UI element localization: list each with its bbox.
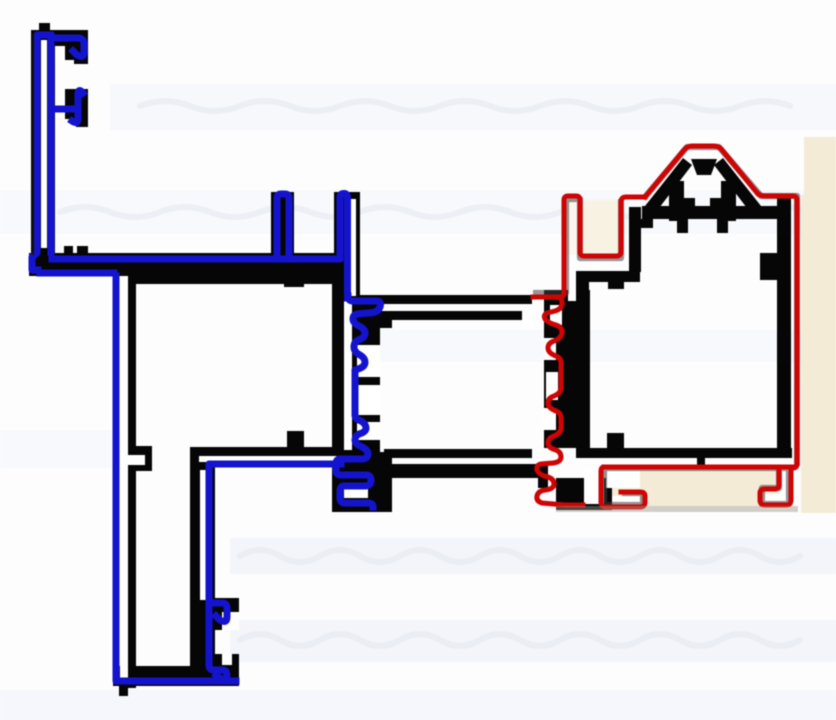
hat ornament left	[669, 181, 684, 221]
left bead bottom notches	[344, 484, 368, 498]
left gasket black tail	[380, 316, 392, 328]
faint texture band 6	[0, 690, 836, 720]
top band lower edge right part	[128, 276, 346, 284]
white slot right stub area	[568, 263, 576, 301]
vertical1 blue	[116, 276, 236, 681]
bottom rail red	[601, 467, 794, 507]
left gasket white stripe	[344, 300, 352, 450]
faint streak texture in bands	[60, 101, 810, 646]
vertical2 blue + shelf	[209, 464, 341, 600]
white cores / notches	[41, 40, 786, 684]
vertical 1 black	[128, 276, 136, 688]
glass bottom line	[384, 449, 532, 458]
faint texture band 4	[230, 538, 836, 574]
shelf white stripe	[199, 456, 339, 462]
hook1 blue	[51, 38, 84, 56]
right band	[576, 271, 640, 282]
right chamber bottom wall	[576, 448, 792, 458]
left gasket bed black	[342, 296, 380, 452]
left bead bottom block	[332, 452, 392, 512]
right chamber left wall upper	[629, 207, 641, 272]
bead E-feet blue	[209, 598, 227, 679]
right gasket bottom foot	[556, 478, 612, 510]
rail foot1 interior	[606, 471, 640, 488]
screw ticks on band	[64, 246, 73, 254]
hook 2 black	[55, 89, 88, 127]
faint texture band 2	[0, 190, 836, 234]
blue shadow edges (dark edging near blue lines)	[32, 34, 35, 255]
faint texture band 1	[110, 84, 836, 130]
stub B / bead upright black	[334, 192, 360, 302]
v1 tab notch	[127, 455, 145, 465]
right gasket wiggle	[533, 297, 583, 505]
glass bottom band right tail	[538, 464, 548, 488]
top band black	[37, 253, 346, 276]
right gasket pockets	[550, 305, 562, 325]
left frame bar black body	[31, 30, 55, 262]
bar inner blue + hooks	[48, 36, 55, 252]
band top blue	[52, 256, 338, 263]
hook 1 black	[55, 30, 88, 64]
vertical 2 black	[190, 447, 215, 672]
bar outer blue	[32, 35, 50, 270]
shadow under right profile feet	[556, 506, 798, 512]
hook2 notch	[55, 96, 65, 118]
hat apex shadow	[691, 159, 717, 175]
rail foot2 interior	[764, 494, 786, 503]
bar white core	[41, 40, 47, 248]
stub A blue	[277, 194, 289, 254]
tick below band	[284, 279, 304, 287]
glass top line 1	[354, 295, 532, 304]
bottom band foot	[119, 686, 128, 696]
chamber tick	[607, 433, 624, 448]
glass bottom band	[392, 464, 541, 478]
bottom band	[113, 666, 239, 686]
top tab left bar	[39, 23, 50, 32]
glass top line 2	[376, 311, 522, 320]
faint texture band 5	[230, 620, 836, 662]
right chamber left wall lower	[576, 282, 589, 448]
tick above shelf	[287, 431, 304, 447]
vertical2 white core	[200, 470, 206, 600]
glass gap right end	[522, 312, 534, 328]
hook2 blue	[52, 91, 83, 123]
faint texture band 3	[360, 330, 836, 362]
hat + right wall red	[645, 146, 797, 468]
right chamber right wall	[777, 196, 791, 458]
cream pocket right profile	[581, 200, 618, 258]
bead left wall	[332, 280, 344, 512]
right gasket bed black	[544, 290, 590, 448]
bar foot black	[29, 253, 40, 276]
right chamber top wall	[642, 206, 778, 219]
cream between rail feet	[604, 468, 779, 506]
right band notch	[608, 282, 624, 289]
stub below bottom wall	[697, 458, 705, 466]
hat right slope shading	[714, 158, 761, 212]
right wall inner notch	[760, 253, 777, 280]
cream stub interior	[567, 200, 578, 255]
bead E-feet notches	[222, 612, 239, 630]
stubB white core	[351, 199, 356, 296]
hook1 notch	[55, 46, 65, 60]
shelf band black	[190, 447, 346, 456]
hat ornament right	[721, 181, 736, 221]
cream margin right	[804, 137, 836, 199]
hat left slope shading	[645, 158, 692, 212]
vertical1 white core	[120, 280, 128, 684]
stub + pocket red	[533, 196, 645, 297]
left gasket wiggle	[336, 296, 381, 507]
stub A black	[271, 192, 294, 254]
bead E-feet black	[210, 598, 239, 630]
red shadow understroke	[533, 147, 797, 505]
white slot left of rail	[584, 468, 604, 504]
stub B blue	[340, 194, 348, 299]
left gasket pockets	[357, 345, 380, 377]
vertical 1 tab	[135, 446, 152, 471]
band lower blue	[40, 270, 114, 277]
